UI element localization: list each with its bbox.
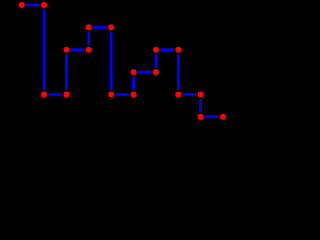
node 4 at grid (2,4)	[63, 91, 69, 97]
node 6 at grid (3,2)	[86, 47, 92, 53]
wire segment (1,4)-(2,4)	[49, 93, 62, 96]
wire segment (2,2)-(3,2)	[71, 48, 84, 51]
wire segment (4,4)-(5,4)	[116, 93, 129, 96]
wire segment (5,3)-(6,3)	[138, 71, 151, 74]
node 10 at grid (5,4)	[130, 91, 136, 97]
node 16 at grid (8,4)	[198, 91, 204, 97]
node 18 at grid (9,5)	[220, 114, 226, 120]
wire segment (4,1)-(4,4)	[110, 32, 113, 90]
node 1 at grid (0,0)	[19, 2, 25, 8]
node 5 at grid (2,2)	[63, 47, 69, 53]
wire segment (7,2)-(7,4)	[177, 54, 180, 90]
node 15 at grid (7,4)	[175, 91, 181, 97]
node 13 at grid (6,2)	[153, 47, 159, 53]
wire segment (6,2)-(7,2)	[160, 48, 173, 51]
wire segment (0,0)-(1,0)	[26, 4, 39, 7]
node 9 at grid (4,4)	[108, 91, 114, 97]
wire segment (8,4)-(8,5)	[199, 99, 202, 112]
node 3 at grid (1,4)	[41, 91, 47, 97]
node 8 at grid (4,1)	[108, 24, 114, 30]
wire segment (5,4)-(5,3)	[132, 77, 135, 90]
node 12 at grid (6,3)	[153, 69, 159, 75]
wire segment (3,1)-(4,1)	[93, 26, 106, 29]
wire segment (1,0)-(1,4)	[43, 9, 46, 89]
node 11 at grid (5,3)	[130, 69, 136, 75]
node 17 at grid (8,5)	[198, 114, 204, 120]
wire segment (2,4)-(2,2)	[65, 54, 68, 90]
node 14 at grid (7,2)	[175, 47, 181, 53]
wire segment (7,4)-(8,4)	[183, 93, 196, 96]
wire segment (3,2)-(3,1)	[87, 32, 90, 45]
node 2 at grid (1,0)	[41, 2, 47, 8]
wire segment (8,5)-(9,5)	[205, 115, 218, 118]
wire segment (6,3)-(6,2)	[155, 54, 158, 67]
node 7 at grid (3,1)	[86, 24, 92, 30]
